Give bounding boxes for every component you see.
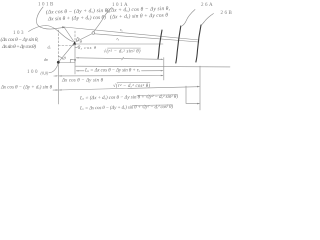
label dy cos theta — [78, 45, 97, 50]
label d near origin — [44, 57, 48, 62]
sqrt overline row3 label — [117, 81, 150, 83]
label row3 Dx cos - Dy sin — [61, 79, 104, 84]
sqrt overline row5 formula — [137, 94, 178, 97]
dimension row4 line — [53, 87, 199, 90]
svg-text:dʙ: dʙ — [44, 57, 48, 62]
leader 100 — [49, 64, 58, 73]
wire segment P3 to P1 — [64, 27, 75, 43]
arc 26B third — [196, 25, 201, 62]
dimension row2 left arrow — [76, 70, 79, 71]
arrowhead down at baseline x75 — [74, 59, 76, 62]
label ry on ray R1 — [120, 27, 123, 32]
label sqrt r2 - dx2 sin2 t above row1 — [104, 48, 141, 54]
wire ray R3 horizontal from vertex to arc 1 — [75, 43, 163, 45]
formula (Dx cos t - Dy sin t, — [1, 36, 40, 43]
svg-text:dₓ cos θ: dₓ cos θ — [78, 45, 97, 50]
leader 103 — [29, 26, 73, 42]
svg-text:26B: 26B — [221, 11, 234, 16]
dimension row1 break tick — [122, 57, 124, 60]
wire vertical extension x58 lower — [57, 62, 59, 104]
svg-text:100: 100 — [27, 70, 39, 75]
wire dashed horizontal y45.5 — [58, 45, 74, 47]
svg-text:Δx cos θ − (Δy + dₓ) sin θ: Δx cos θ − (Δy + dₓ) sin θ — [0, 85, 53, 90]
right-angle square at baseline — [70, 59, 73, 62]
label row5 equation Lx — [79, 94, 178, 102]
wire vertical x75 — [74, 45, 76, 75]
wire diagonal from origin dot to vertex P1 — [58, 43, 74, 62]
dimension row4 right arrow — [197, 86, 200, 88]
dimension row4 left outside arrow — [56, 89, 59, 90]
wire baseline origin to x75 — [58, 62, 75, 64]
leader 26A — [182, 10, 195, 27]
dimension row1 line — [76, 58, 163, 60]
node 103 label — [13, 31, 25, 36]
wire vertical extension x58 dashed upper — [57, 30, 59, 62]
node sensor circle P2 — [92, 32, 95, 35]
dimension row2 right arrow — [161, 70, 164, 71]
svg-text:26A: 26A — [201, 3, 214, 8]
node 26B label — [221, 11, 234, 16]
svg-text:103: 103 — [13, 31, 25, 36]
node 101B label — [38, 3, 55, 8]
dimension row1 left arrow — [76, 57, 79, 58]
arrowhead at junction P3 — [62, 26, 65, 28]
dimension row1 right arrow — [161, 59, 164, 60]
wire vertical extension x164 — [163, 58, 165, 81]
dimension row3 left arrow — [59, 75, 62, 76]
sqrt overline row6 formula — [132, 104, 173, 107]
sqrt overline row1 label — [108, 47, 141, 49]
angle theta label at origin — [64, 56, 67, 61]
svg-text:Δx sin θ + Δy cos θ): Δx sin θ + Δy cos θ) — [1, 43, 36, 50]
leader 101A — [94, 8, 112, 32]
label dy on diagonal — [48, 45, 51, 50]
svg-text:Δx cos θ − Δy sin θ: Δx cos θ − Δy sin θ — [61, 79, 104, 84]
svg-text:Lₓ = (Δx + dₓ) cos θ − Δy sin: Lₓ = (Δx + dₓ) cos θ − Δy sin θ + √(r² −… — [79, 94, 178, 102]
label rx on ray R2 — [117, 36, 120, 41]
node 101A label — [112, 3, 129, 8]
right-angle diamond at P1 — [76, 38, 79, 42]
svg-text:(0,0): (0,0) — [41, 71, 49, 77]
wire ray R1 from point B junction to arc 3 — [64, 27, 199, 40]
svg-text:rₓ: rₓ — [120, 27, 123, 32]
wire ray R2 from sensor A circle to arc 3 — [95, 34, 199, 42]
node origin dot 100 — [57, 61, 60, 64]
svg-text:(Δx cos θ − Δy sin θ,: (Δx cos θ − Δy sin θ, — [1, 36, 40, 43]
svg-text:dₓ: dₓ — [48, 45, 51, 50]
angle theta label at vertex — [80, 39, 83, 44]
formula Dx sin t + (Dy+dy) cos t) — [47, 14, 106, 23]
node 26A label — [201, 3, 214, 8]
svg-text:√(r² − dₓ² sin² θ): √(r² − dₓ² sin² θ) — [104, 48, 141, 54]
label row6 equation Ly — [79, 104, 173, 111]
svg-text:θ: θ — [64, 56, 67, 61]
label row4 left Dx cos - (Dy+dy) sin — [0, 85, 53, 90]
label sqrt r2 - dy2 cos2 t below row3 — [113, 83, 150, 89]
formula (Dx+dx) sin t + Dy cos t — [110, 12, 169, 21]
label Lx equation row2 — [84, 69, 141, 74]
dimension row3 right arrow — [161, 75, 164, 76]
leader 101B — [37, 7, 63, 29]
wire segment P1 to P2 — [75, 34, 93, 43]
formula ((Dx+dx) cos t - Dy sin t, — [107, 5, 171, 14]
formula (Dx cos t - (Dy+dy) sin t, — [46, 7, 110, 16]
formula Dx sin t + Dy cos t) — [1, 43, 36, 50]
dimension row3 stubs — [59, 75, 163, 77]
wire vertical extension x186 — [185, 86, 187, 103]
svg-text:rₓ: rₓ — [117, 36, 120, 41]
angle arc theta at origin dot — [58, 57, 63, 60]
wire vertical extension x200 — [199, 66, 201, 110]
dimension row6 right line — [186, 103, 199, 105]
node vertex arrowhead P1 — [73, 41, 76, 45]
node 100 label — [27, 70, 49, 77]
svg-text:Lₓ = Δx cos θ − Δy sin θ + rₓ: Lₓ = Δx cos θ − Δy sin θ + rₓ — [84, 69, 141, 74]
wire wall line y66 — [76, 65, 231, 68]
angle arc theta at vertex P1 — [75, 45, 79, 47]
leader 26B — [201, 14, 213, 26]
svg-text:θ: θ — [80, 39, 83, 44]
arc 26A second — [176, 26, 181, 63]
dimension row2 stubs — [76, 70, 163, 72]
arc 26A first — [158, 30, 162, 59]
dimension row3 outside arrow — [56, 75, 59, 76]
svg-text:Lₓ = Δx cos θ − (Δy + dₓ) sin: Lₓ = Δx cos θ − (Δy + dₓ) sin θ + √(r² −… — [79, 104, 173, 111]
dimension row6 right arrow — [197, 103, 200, 105]
wire vertical extension x75 dashed upper — [74, 31, 76, 40]
svg-text:101B: 101B — [38, 3, 55, 8]
